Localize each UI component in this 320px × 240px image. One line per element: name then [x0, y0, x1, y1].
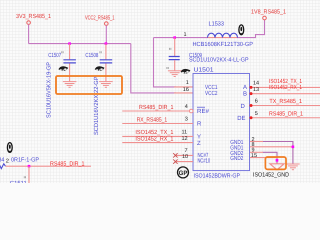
svg-text:GND2: GND2 — [230, 155, 244, 162]
pin DE dot — [250, 116, 253, 119]
NC#10 stub — [175, 161, 193, 163]
wire GND1 pin8 — [250, 146, 293, 148]
GP circle icon — [178, 167, 189, 178]
power port VCC2_RS485_1 circle — [105, 22, 109, 26]
svg-text:5: 5 — [255, 111, 258, 117]
svg-text:6: 6 — [255, 99, 258, 105]
svg-text:A: A — [243, 84, 247, 91]
capacitor C1508 plates — [100, 60, 113, 63]
wire B row — [251, 93, 320, 95]
wire 3V3 vertical drop — [28, 24, 30, 43]
wire RS485_DIR_1 bottom — [6, 165, 92, 167]
svg-text:3: 3 — [185, 116, 188, 122]
svg-text:RS485_DIR_1: RS485_DIR_1 — [139, 104, 174, 111]
wire 1V8 rail to inductor — [154, 37, 208, 39]
wire GND2 pin9 elbow — [263, 152, 278, 164]
ground for C1509 — [168, 71, 182, 77]
eye icon near U1501 — [181, 69, 191, 74]
junction GND right — [292, 146, 295, 149]
inductor L1533 arcs — [208, 33, 238, 37]
capacitor C1507 plates — [63, 60, 76, 63]
wire D row — [251, 105, 320, 107]
svg-text:VCC1: VCC1 — [205, 84, 218, 91]
ground for C1507 — [63, 82, 77, 88]
capacitor C1509 wire drop — [174, 38, 176, 56]
svg-text:ISO1452_TX_1: ISO1452_TX_1 — [269, 78, 303, 85]
RE# invert bubble — [189, 109, 193, 113]
no-connect X pin7 — [173, 153, 177, 157]
resistor zigzag bottom left — [0, 164, 6, 169]
pin 9 stub — [250, 151, 263, 153]
svg-text:2: 2 — [6, 158, 9, 164]
svg-text:ISO1452_GND: ISO1452_GND — [253, 171, 290, 178]
triangle ground ISO1452_GND — [270, 164, 284, 170]
junction at C1507 tap — [68, 42, 71, 45]
wire DE row — [251, 117, 320, 119]
svg-text:1V8_RS485_1: 1V8_RS485_1 — [251, 9, 287, 16]
svg-text:SC10U16V5KX-19-GP: SC10U16V5KX-19-GP — [46, 62, 53, 118]
pin 16 stub — [174, 92, 193, 94]
svg-text:C1511: C1511 — [10, 180, 28, 183]
eye icon vertical bottom left — [7, 143, 12, 153]
wire down to C1511 — [28, 166, 30, 183]
svg-text:U1501: U1501 — [194, 66, 215, 73]
svg-text:ISO1452BDWR-GP: ISO1452BDWR-GP — [194, 172, 241, 179]
svg-text:B: B — [243, 91, 247, 98]
capacitor C1507 wire drop — [69, 44, 71, 60]
RE overline — [197, 106, 205, 108]
power port 1V8_RS485_1 circle — [263, 16, 267, 20]
svg-text:D: D — [241, 103, 246, 110]
svg-text:1: 1 — [186, 80, 189, 86]
svg-text:RS485_DIR_1: RS485_DIR_1 — [269, 111, 304, 118]
orange box around triangle ground — [265, 157, 286, 169]
pin 1 stub — [174, 86, 193, 88]
orange selection box around C1507/C1508 grounds — [56, 76, 122, 94]
svg-text:7: 7 — [185, 148, 188, 154]
eye icon near C1508 — [95, 66, 105, 71]
wire Z row — [122, 142, 193, 144]
C1507 tiny marks — [62, 51, 63, 53]
svg-text:C1508: C1508 — [85, 52, 98, 59]
svg-text:4: 4 — [185, 104, 188, 110]
wire Y row — [122, 135, 193, 137]
wire under inductor — [208, 37, 238, 39]
C1508 ground stub — [105, 64, 107, 82]
svg-text:GP: GP — [179, 170, 189, 177]
svg-text:ISO1452_RX_1: ISO1452_RX_1 — [135, 136, 174, 143]
svg-text:VCC2: VCC2 — [205, 90, 218, 97]
capacitor C1508 wire drop — [105, 44, 107, 60]
eye icon vertical near L1533 pin2 — [239, 25, 244, 35]
pin A dot — [250, 86, 253, 89]
svg-text:RX_RS485_1: RX_RS485_1 — [137, 116, 168, 123]
wire 3V3/VCC2 rail — [29, 43, 131, 45]
svg-text:11: 11 — [182, 129, 188, 135]
wire VCC1 from 1V8 rail — [154, 38, 177, 87]
svg-text:RE#: RE# — [197, 108, 210, 115]
wire A row — [251, 86, 320, 88]
svg-text:SCD1U16V2KX-22-GP: SCD1U16V2KX-22-GP — [93, 77, 100, 136]
C1508 tiny marks — [100, 51, 101, 53]
svg-text:1: 1 — [184, 32, 187, 38]
C1509 ground stub — [174, 60, 176, 71]
junction bottom left — [28, 165, 31, 168]
svg-text:SCD1U10V2KX-4-LL-GP: SCD1U10V2KX-4-LL-GP — [189, 57, 249, 64]
C1507 ground stub — [69, 64, 71, 82]
svg-text:R: R — [197, 121, 202, 128]
pin B dot — [250, 92, 253, 95]
svg-text:ISO1452_TX_1: ISO1452_TX_1 — [135, 129, 174, 136]
wire RE# row — [122, 110, 189, 112]
svg-text:L1533: L1533 — [209, 20, 225, 27]
eye icon near C1507 — [58, 66, 68, 71]
wire rail down to VCC2 pin16 — [131, 44, 176, 93]
svg-text:Y: Y — [197, 134, 201, 141]
power port 3V3_RS485_1 circle — [27, 21, 31, 25]
svg-text:DE: DE — [237, 115, 245, 122]
C1511 tiny marks — [24, 176, 25, 178]
svg-text:10: 10 — [182, 154, 188, 160]
wire VCC2 vertical drop — [105, 25, 107, 43]
wire GND1 pin2 elbow — [263, 142, 293, 165]
junction at C1508 tap — [105, 42, 108, 45]
svg-text:NC#10: NC#10 — [198, 157, 211, 164]
C1509 tiny marks — [170, 48, 171, 50]
svg-text:84: 84 — [0, 157, 5, 164]
capacitor C1509 plates — [169, 57, 180, 60]
no-connect X pin10 — [173, 159, 177, 163]
svg-text:HCB1608KF121T30-GP: HCB1608KF121T30-GP — [193, 41, 254, 48]
svg-text:RS485_DIR_1: RS485_DIR_1 — [50, 160, 85, 167]
svg-text:16: 16 — [183, 87, 189, 93]
svg-text:ISO1452_RX_1: ISO1452_RX_1 — [269, 84, 303, 91]
background grid — [0, 0, 320, 183]
svg-text:0R1F-1-GP: 0R1F-1-GP — [11, 157, 39, 164]
svg-text:TX_RS485_1: TX_RS485_1 — [269, 98, 302, 105]
svg-text:14: 14 — [253, 80, 259, 86]
svg-text:C1507: C1507 — [48, 52, 61, 59]
svg-text:12: 12 — [182, 136, 188, 142]
wire GND2 pin15 — [250, 157, 277, 159]
ground for C1508 — [99, 82, 113, 88]
svg-text:3V3_RS485_1: 3V3_RS485_1 — [16, 13, 52, 20]
IC U1501 transceiver body — [193, 74, 250, 171]
NC#7 stub — [175, 154, 193, 156]
pin D dot — [250, 104, 253, 107]
junction GND2 — [276, 159, 279, 162]
wire R row — [122, 123, 193, 125]
junction at C1509 tap — [173, 36, 176, 39]
pin 2 stub — [250, 141, 263, 143]
svg-text:VCC2_RS485_1: VCC2_RS485_1 — [85, 14, 115, 21]
ground right hatched — [286, 164, 300, 170]
svg-text:13: 13 — [253, 87, 259, 93]
svg-text:Z: Z — [197, 140, 201, 147]
wire inductor right to 1V8 port — [238, 20, 265, 38]
